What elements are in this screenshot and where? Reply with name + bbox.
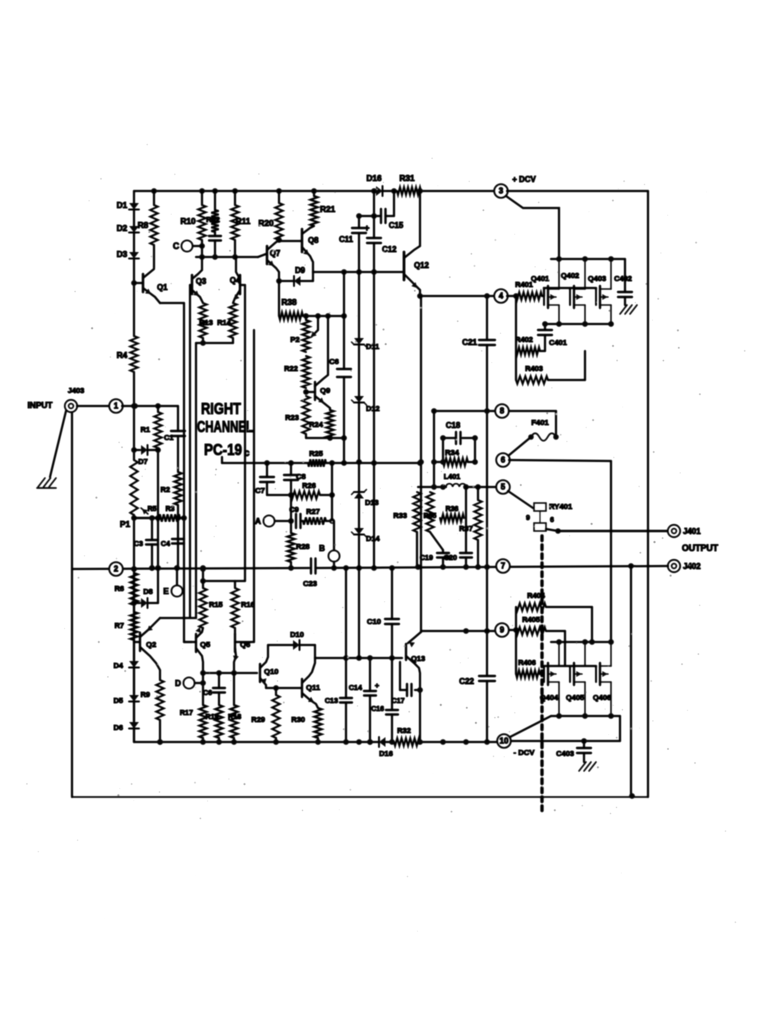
svg-text:C: C <box>173 241 180 251</box>
svg-text:C23: C23 <box>303 579 317 588</box>
svg-text:C6: C6 <box>203 690 212 697</box>
svg-text:c: c <box>244 448 250 459</box>
svg-text:Q402: Q402 <box>561 271 579 280</box>
svg-text:R38: R38 <box>281 297 297 307</box>
svg-text:Q9: Q9 <box>320 386 330 395</box>
svg-text:R36: R36 <box>446 506 459 513</box>
svg-text:C4: C4 <box>161 539 170 548</box>
svg-text:J403: J403 <box>68 386 85 395</box>
svg-text:OUTPUT: OUTPUT <box>682 543 719 553</box>
svg-text:C7: C7 <box>255 486 265 495</box>
svg-text:C22: C22 <box>459 677 474 686</box>
svg-text:R27: R27 <box>306 507 320 516</box>
svg-text:CHANNEL: CHANNEL <box>197 419 253 436</box>
svg-text:C403: C403 <box>556 749 574 758</box>
svg-text:D5: D5 <box>113 696 123 705</box>
svg-text:L401: L401 <box>444 472 461 481</box>
svg-text:D13: D13 <box>365 498 379 507</box>
svg-text:INPUT: INPUT <box>27 400 52 410</box>
svg-text:3: 3 <box>499 187 504 196</box>
svg-text:D2: D2 <box>117 223 128 233</box>
svg-text:R15: R15 <box>209 600 223 609</box>
svg-text:C6: C6 <box>329 357 339 366</box>
svg-text:Q7: Q7 <box>270 249 281 258</box>
svg-text:10: 10 <box>500 737 509 746</box>
svg-text:+: + <box>375 681 380 690</box>
svg-text:C8: C8 <box>296 472 307 481</box>
svg-text:A: A <box>255 517 261 526</box>
svg-text:9: 9 <box>500 626 505 635</box>
svg-text:P2: P2 <box>290 335 299 344</box>
svg-text:Q1: Q1 <box>157 283 168 292</box>
svg-text:C14: C14 <box>349 683 362 692</box>
svg-text:C18: C18 <box>446 421 461 430</box>
svg-text:C9: C9 <box>289 505 299 514</box>
svg-text:P1: P1 <box>120 519 131 529</box>
svg-text:R402: R402 <box>515 335 533 344</box>
svg-text:R28: R28 <box>296 542 310 551</box>
svg-text:R1: R1 <box>140 425 150 434</box>
svg-text:Q2: Q2 <box>146 640 156 649</box>
svg-text:C13: C13 <box>325 696 338 705</box>
svg-text:Q404: Q404 <box>540 693 559 702</box>
svg-text:R19: R19 <box>205 712 218 721</box>
svg-text:Q401: Q401 <box>531 274 549 283</box>
svg-text:D10: D10 <box>290 630 304 639</box>
svg-text:C17: C17 <box>391 696 404 705</box>
svg-text:B: B <box>319 544 325 553</box>
svg-text:D4: D4 <box>113 661 123 670</box>
svg-text:F401: F401 <box>531 418 549 427</box>
svg-text:C402: C402 <box>614 274 632 283</box>
svg-text:R35: R35 <box>424 513 437 520</box>
svg-text:R12: R12 <box>206 215 220 224</box>
svg-text:R404: R404 <box>527 591 546 600</box>
svg-text:Q5: Q5 <box>200 640 211 649</box>
svg-text:C401: C401 <box>549 338 567 347</box>
svg-text:R10: R10 <box>180 216 196 226</box>
svg-text:6: 6 <box>501 456 506 465</box>
svg-text:R6: R6 <box>114 584 124 593</box>
svg-text:4: 4 <box>499 292 504 301</box>
svg-text:R405: R405 <box>522 615 540 624</box>
svg-text:Q13: Q13 <box>411 654 425 663</box>
svg-text:8: 8 <box>500 407 505 416</box>
svg-text:R4: R4 <box>117 350 128 360</box>
svg-text:RIGHT: RIGHT <box>201 401 241 418</box>
svg-text:- DCV: - DCV <box>514 748 536 757</box>
svg-text:RY401: RY401 <box>549 502 573 511</box>
svg-text:D16: D16 <box>379 749 393 758</box>
svg-text:R11: R11 <box>236 216 251 226</box>
svg-text:2: 2 <box>114 565 119 574</box>
svg-text:R33: R33 <box>393 511 407 520</box>
svg-text:D: D <box>175 679 181 688</box>
svg-text:R406: R406 <box>518 658 536 667</box>
svg-text:C12: C12 <box>382 245 397 254</box>
svg-text:C11: C11 <box>339 235 354 244</box>
svg-text:Q6: Q6 <box>240 640 250 649</box>
svg-text:R14: R14 <box>217 318 232 327</box>
svg-text:R23: R23 <box>285 413 299 422</box>
svg-text:J402: J402 <box>683 562 701 571</box>
svg-text:Q8: Q8 <box>308 236 319 245</box>
svg-text:D16: D16 <box>366 173 382 183</box>
svg-text:R21: R21 <box>320 204 336 214</box>
svg-text:R37: R37 <box>459 524 473 533</box>
svg-text:C21: C21 <box>462 338 477 347</box>
svg-text:6: 6 <box>550 516 554 524</box>
svg-text:Q403: Q403 <box>588 274 606 283</box>
svg-text:+ DCV: + DCV <box>512 175 536 184</box>
svg-text:PC-19: PC-19 <box>204 442 242 459</box>
svg-text:1: 1 <box>114 402 119 411</box>
svg-text:R8: R8 <box>138 220 149 230</box>
svg-text:Q406: Q406 <box>593 693 611 702</box>
svg-text:R9: R9 <box>140 690 150 699</box>
svg-text:D9: D9 <box>295 266 306 275</box>
svg-text:D7: D7 <box>138 457 148 466</box>
svg-text:R5: R5 <box>148 506 157 513</box>
svg-text:D3: D3 <box>117 249 128 259</box>
svg-text:Q12: Q12 <box>414 261 430 270</box>
svg-text:R403: R403 <box>525 364 543 373</box>
svg-text:R7: R7 <box>114 621 124 630</box>
svg-text:C15: C15 <box>389 221 404 230</box>
svg-text:R29: R29 <box>251 715 265 724</box>
svg-text:R18: R18 <box>228 712 241 721</box>
svg-text:E: E <box>163 587 169 596</box>
svg-text:R17: R17 <box>180 708 193 717</box>
svg-text:D1: D1 <box>117 200 128 210</box>
svg-text:R2: R2 <box>160 485 170 494</box>
svg-text:Q10: Q10 <box>264 667 279 676</box>
svg-text:Q405: Q405 <box>566 693 584 702</box>
svg-text:D8: D8 <box>143 587 153 596</box>
svg-text:R34: R34 <box>445 448 460 457</box>
svg-text:Q11: Q11 <box>306 683 321 692</box>
svg-text:C1: C1 <box>164 433 174 442</box>
svg-text:R31: R31 <box>399 173 415 183</box>
svg-text:7: 7 <box>501 562 506 571</box>
svg-text:R16: R16 <box>241 600 255 609</box>
svg-text:R13: R13 <box>199 318 213 327</box>
svg-text:D12: D12 <box>366 404 380 413</box>
svg-text:Q4: Q4 <box>230 276 241 285</box>
svg-text:R26: R26 <box>302 481 316 490</box>
svg-text:D6: D6 <box>113 723 123 732</box>
svg-text:C10: C10 <box>367 617 381 626</box>
svg-text:C16: C16 <box>371 706 384 713</box>
svg-text:R20: R20 <box>258 218 274 228</box>
svg-text:R24: R24 <box>309 420 324 429</box>
svg-text:C20: C20 <box>444 553 457 562</box>
svg-text:R30: R30 <box>291 715 305 724</box>
svg-text:9: 9 <box>526 514 530 522</box>
svg-text:R25: R25 <box>309 449 323 458</box>
svg-text:5: 5 <box>501 483 506 492</box>
svg-text:+: + <box>364 223 369 233</box>
svg-text:Q3: Q3 <box>196 277 207 286</box>
svg-text:J401: J401 <box>683 527 701 536</box>
svg-text:C3: C3 <box>134 539 143 548</box>
svg-text:R22: R22 <box>284 364 298 373</box>
